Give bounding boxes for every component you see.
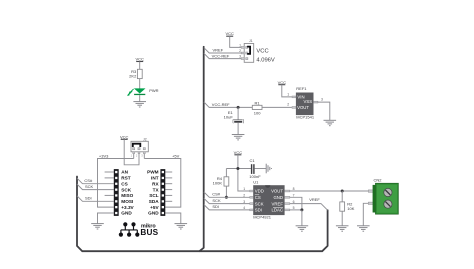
wire stub RX (165, 183, 172, 185)
resistor R2 10K (340, 201, 355, 211)
wire R4 bottom to CS net (225, 186, 227, 197)
wire R2 to ground (341, 211, 343, 226)
connector CN2 output terminal (368, 178, 398, 215)
ground (U1) (296, 226, 309, 231)
wire SDI from bus to U1 SDI (204, 205, 250, 210)
svg-text:3: 3 (243, 200, 245, 204)
connector J1 (VREF select jumper) (239, 39, 275, 63)
wire VREF from bus to J1 pin2 (204, 48, 241, 53)
svg-text:2: 2 (239, 49, 241, 53)
svg-text:+3.3V: +3.3V (121, 205, 134, 210)
wire +5V rail (144, 159, 181, 208)
svg-text:100nF: 100nF (249, 174, 261, 179)
ground (socket left) (91, 224, 104, 229)
svg-text:MOSI: MOSI (121, 199, 133, 204)
svg-text:VCC: VCC (120, 134, 129, 139)
svg-text:C1: C1 (249, 158, 255, 163)
wire VCC to J1 pin1 (230, 36, 242, 47)
wire stub SCL (165, 194, 172, 196)
wire LED to ground (139, 95, 141, 102)
wire VCC down to U1 VDD (238, 155, 250, 191)
svg-text:100: 100 (254, 110, 261, 115)
mikroBUS logo (119, 222, 159, 237)
wire CN2 pin2 to ground (363, 203, 372, 226)
wire E1 to ground (237, 123, 239, 135)
wire U1 VOUT to CN2 (290, 190, 373, 192)
svg-text:VSS: VSS (303, 99, 312, 104)
svg-text:VREF: VREF (272, 201, 284, 206)
svg-text:SCK: SCK (255, 201, 264, 206)
wire socket GND left to ground (98, 213, 114, 224)
svg-text:LDAC: LDAC (272, 208, 283, 213)
svg-text:VREF: VREF (309, 197, 320, 202)
wire VCC-REF from bus to J1 pin3 (204, 53, 241, 58)
svg-text:1: 1 (239, 43, 241, 47)
wire VCC junction to R4 and C1 (226, 168, 251, 170)
svg-text:10uF: 10uF (224, 114, 234, 119)
wire U1 LDAC to GND net (290, 209, 302, 211)
wire J2 pin3 to +5V rail (143, 152, 145, 159)
svg-text:SDI: SDI (212, 204, 219, 209)
svg-text:VREF: VREF (213, 48, 224, 53)
svg-text:TX: TX (153, 187, 160, 192)
node junction GND/LDAC (300, 208, 303, 211)
svg-text:MISO: MISO (121, 193, 133, 198)
node VCC (J1 branch) (225, 31, 234, 36)
svg-text:REF1: REF1 (296, 86, 307, 91)
svg-text:GND: GND (121, 211, 132, 216)
node VCC (REF1 branch) (278, 80, 287, 85)
node junction R4/CS (225, 196, 228, 199)
ground (socket right) (175, 224, 188, 229)
wire socket GND right to ground (165, 213, 181, 224)
resistor R4 100K (213, 176, 229, 186)
svg-text:RST: RST (121, 176, 131, 181)
ground (CN2) (357, 226, 370, 231)
op-amp U? voltage reference REF1 MCP1541 (287, 86, 323, 120)
wire R4 top (225, 169, 227, 177)
svg-text:BUS: BUS (140, 228, 158, 237)
svg-text:3: 3 (321, 98, 323, 102)
svg-text:RX: RX (152, 181, 159, 186)
connector CN1 mikroBUS socket left column (114, 169, 135, 216)
wire stub RST (105, 177, 114, 179)
svg-text:INT: INT (151, 176, 159, 181)
wire GND net to ground (301, 210, 303, 226)
svg-text:CS: CS (121, 181, 128, 186)
svg-text:1: 1 (243, 187, 245, 191)
svg-text:U1: U1 (253, 180, 259, 185)
svg-text:SCK: SCK (212, 198, 221, 203)
wire stub AN (105, 171, 114, 173)
connector CN1 mikroBUS socket right column (147, 169, 165, 216)
node VCC (U1 branch) (234, 150, 243, 155)
wire U1 GND down (290, 197, 302, 210)
svg-text:VCC: VCC (225, 31, 234, 36)
svg-text:J1: J1 (249, 39, 253, 43)
wire SDI from bus to socket MOSI (77, 196, 114, 202)
ground (REF1) (324, 120, 337, 125)
svg-text:VCC: VCC (278, 80, 287, 85)
svg-text:4.096V: 4.096V (256, 57, 275, 63)
svg-text:2: 2 (287, 103, 289, 107)
svg-text:2: 2 (243, 194, 245, 198)
wire VOUT junction to R2 (341, 191, 343, 202)
node junction VCC-REF/E1 (237, 106, 240, 109)
wire U1 VREF to bus (290, 204, 328, 211)
wire R1 to REF1 VOUT (262, 106, 292, 108)
svg-text:CN2: CN2 (374, 178, 383, 183)
svg-text:MCP1541: MCP1541 (296, 115, 315, 120)
IC U1 MCP4921 DAC (243, 180, 294, 220)
wire VCC to REF1 VIN (282, 85, 292, 97)
wire CS# from bus to U1 CS (204, 192, 250, 197)
connector J2 (VCC select jumper) (131, 138, 149, 158)
svg-text:VCC: VCC (256, 49, 268, 55)
ground (R2) (336, 226, 349, 231)
node VCC (LED branch) (135, 57, 144, 62)
wire stub MISO (105, 194, 114, 196)
wire: bus vertical from J1 nets down to bottom bus (199, 47, 203, 251)
wire CS# from bus to socket CS (77, 178, 114, 184)
wire SCK from bus to socket SCK (77, 184, 114, 190)
svg-text:MCP4921: MCP4921 (253, 215, 272, 220)
wire stub INT (165, 177, 172, 179)
svg-text:R1: R1 (255, 100, 261, 105)
ground (C1, sideways) (266, 164, 271, 174)
svg-text:100K: 100K (213, 181, 223, 186)
ground (E1) (232, 135, 245, 140)
svg-text:SCK: SCK (121, 187, 132, 192)
resistor R1 100 (252, 100, 262, 115)
wire C1 to side ground (255, 168, 267, 170)
svg-text:VCC-REF: VCC-REF (212, 102, 230, 107)
wire VCC-REF from bus to R1 (204, 102, 252, 107)
wire SCK from bus to U1 SCK (204, 198, 250, 203)
LED PWR (green) (127, 88, 158, 96)
svg-text:+5V: +5V (172, 154, 180, 159)
svg-text:AN: AN (121, 170, 128, 175)
wire +3V3 rail (98, 159, 134, 208)
svg-text:CS#: CS# (84, 178, 93, 183)
wire REF1 VSS to ground (318, 102, 330, 120)
ground (LED) (133, 102, 146, 107)
svg-text:PWR: PWR (149, 88, 158, 93)
svg-text:CS: CS (255, 195, 261, 200)
wire stub TX (165, 189, 172, 191)
wire stub PWM (165, 171, 172, 173)
wire J2 pin1 to +3V3 rail (133, 152, 135, 159)
svg-text:2K2: 2K2 (129, 73, 137, 78)
wire: main signal bus (left vertical, bottom horizontal, right verticals) (77, 177, 328, 252)
svg-text:SCK: SCK (85, 184, 94, 189)
svg-text:SDA: SDA (149, 199, 160, 204)
svg-text:1: 1 (287, 92, 289, 96)
svg-text:VOUT: VOUT (271, 189, 283, 194)
svg-text:VOUT: VOUT (297, 105, 309, 110)
svg-text:3: 3 (239, 55, 241, 59)
svg-text:SDI: SDI (255, 208, 262, 213)
node junction VOUT/R2 (341, 190, 344, 193)
svg-text:CS#: CS# (212, 192, 221, 197)
wire R3 to LED (139, 79, 141, 89)
svg-text:GND: GND (273, 195, 283, 200)
svg-text:PWM: PWM (147, 170, 159, 175)
svg-text:VDD: VDD (255, 189, 264, 194)
capacitor E1 10uF (224, 110, 244, 123)
wire stub SDA (165, 200, 172, 202)
node junction VCC/R4/C1 (236, 167, 239, 170)
node VCC (J2 branch) (120, 134, 129, 139)
svg-text:10K: 10K (347, 206, 354, 211)
svg-text:SCL: SCL (149, 193, 159, 198)
svg-text:+3V3: +3V3 (99, 154, 109, 159)
svg-text:VCC-REF: VCC-REF (212, 53, 230, 58)
resistor R3 2K2 (129, 69, 142, 79)
wire VCC to R3 (139, 62, 141, 70)
svg-text:GND: GND (148, 211, 159, 216)
svg-text:SDI: SDI (85, 196, 92, 201)
svg-text:4: 4 (243, 206, 245, 210)
capacitor C1 100nF (249, 158, 261, 179)
wire junction to E1 (237, 107, 239, 119)
wire VCC to J2 pin2 (124, 139, 139, 165)
svg-text:+5V: +5V (150, 205, 159, 210)
